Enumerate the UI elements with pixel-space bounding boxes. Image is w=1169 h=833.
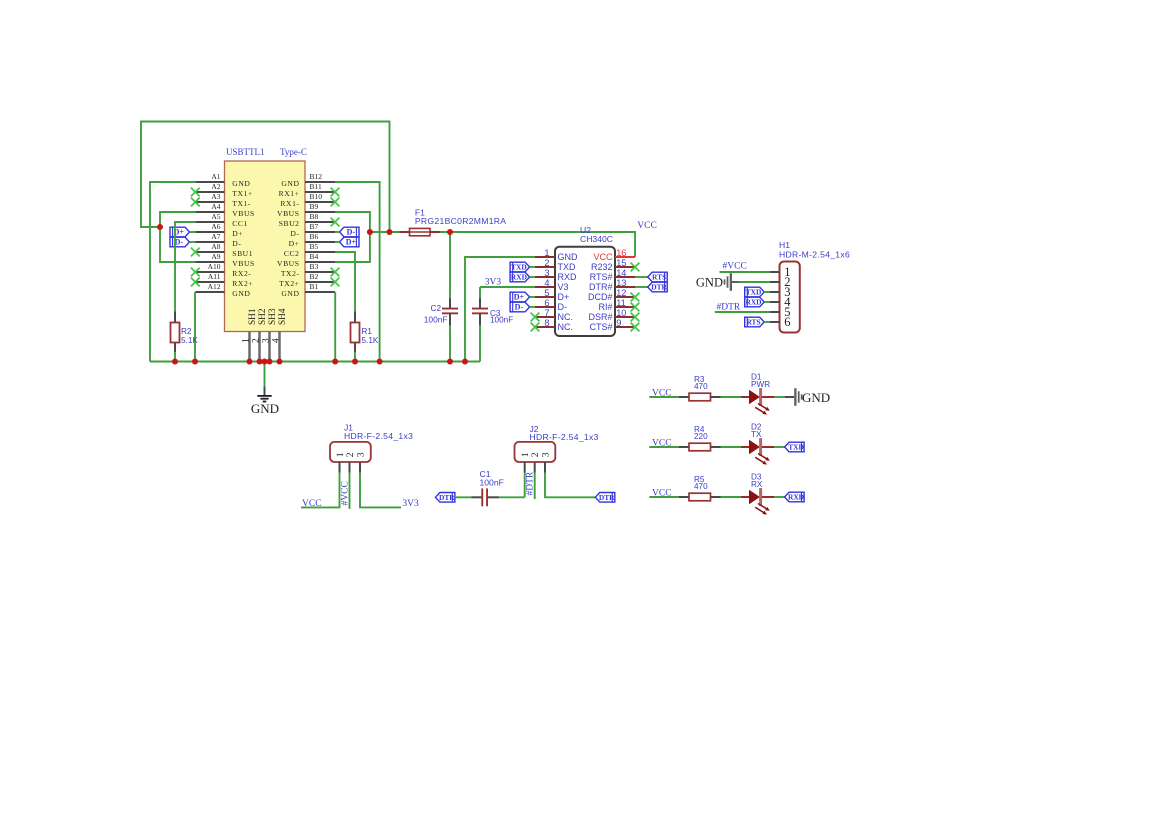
svg-text:VBUS: VBUS <box>232 259 254 268</box>
svg-text:RI#: RI# <box>598 302 612 312</box>
wire 3V3 to C3 <box>479 287 481 299</box>
H1 pin 4 <box>770 295 791 309</box>
connector USBTTL1 Type-C body <box>225 161 306 332</box>
svg-text:14: 14 <box>616 268 626 278</box>
ground <box>251 362 279 417</box>
svg-text:B5: B5 <box>310 242 319 251</box>
H1 pin 2 <box>770 275 790 289</box>
pin SH4 <box>271 308 288 361</box>
net flag D+ (A6) <box>170 227 190 237</box>
svg-text:GND: GND <box>281 289 299 298</box>
U2 pin 4 V3 <box>535 278 569 292</box>
net flag DTR (J2 right) <box>595 493 615 503</box>
svg-text:SBU1: SBU1 <box>232 249 253 258</box>
svg-text:A7: A7 <box>211 232 220 241</box>
pin A4 VBUS <box>195 202 254 218</box>
no-connect X B11 <box>331 188 340 197</box>
resistor R1 5.1K <box>351 312 379 353</box>
svg-text:RTS: RTS <box>652 273 666 282</box>
svg-text:11: 11 <box>616 298 626 308</box>
U2 pin 2 TXD <box>535 258 576 272</box>
svg-text:RX2+: RX2+ <box>232 279 253 288</box>
svg-text:RX2-: RX2- <box>232 269 251 278</box>
pin B2 TX2+ <box>279 272 335 288</box>
capacitor C2 100nF <box>424 298 458 325</box>
junction <box>447 359 453 365</box>
net flag DTR (U2 pin13) <box>648 282 668 292</box>
wire <box>530 266 535 268</box>
svg-text:5.1K: 5.1K <box>362 336 379 345</box>
wire <box>721 396 742 398</box>
svg-text:220: 220 <box>694 432 708 441</box>
svg-text:TX: TX <box>751 430 762 439</box>
connector H1 HDR-M-2.54_1x6 body <box>780 262 800 333</box>
svg-text:B1: B1 <box>310 282 319 291</box>
svg-text:5.1K: 5.1K <box>181 336 198 345</box>
U2 pin 13 DTR# <box>589 278 635 292</box>
svg-text:2: 2 <box>345 452 356 457</box>
svg-text:A9: A9 <box>211 252 220 261</box>
wire <box>530 276 535 278</box>
net flag RXD (D3) <box>785 492 805 502</box>
net flag TXD (D2) <box>785 442 805 452</box>
pin SH2 <box>251 308 268 361</box>
svg-text:VCC: VCC <box>302 499 322 509</box>
svg-text:R1: R1 <box>362 327 373 336</box>
svg-text:7: 7 <box>544 308 549 318</box>
svg-text:GND: GND <box>558 252 579 262</box>
wire J1 pin1 to VCC <box>301 473 340 508</box>
svg-text:CC1: CC1 <box>232 219 248 228</box>
U2 pin 7 NC. <box>535 308 573 322</box>
svg-text:9: 9 <box>616 318 621 328</box>
svg-text:470: 470 <box>694 382 708 391</box>
junction <box>447 229 453 235</box>
LED D1 PWR <box>741 373 774 415</box>
svg-text:R2: R2 <box>181 327 192 336</box>
wire <box>774 446 784 448</box>
junction <box>247 359 253 365</box>
junction <box>172 359 178 365</box>
svg-text:13: 13 <box>616 278 626 288</box>
pin B6 D+ <box>289 232 335 248</box>
pin A9 VBUS <box>195 252 254 268</box>
svg-text:12: 12 <box>616 288 626 298</box>
wire J1 pin3 to 3V3 <box>360 473 401 508</box>
wire <box>530 296 535 298</box>
no-connect X U2 pin 9 <box>631 323 640 332</box>
svg-text:6: 6 <box>544 298 549 308</box>
svg-text:GND: GND <box>281 179 299 188</box>
no-connect X U2 pin7 <box>531 313 540 322</box>
U2 pin 6 D- <box>535 298 567 312</box>
svg-text:B10: B10 <box>310 192 323 201</box>
J2 pin 1 <box>520 452 531 472</box>
svg-text:2: 2 <box>544 258 549 268</box>
junction <box>192 359 198 365</box>
pin B12 GND <box>281 172 335 188</box>
junction <box>257 359 263 365</box>
pin A11 RX2+ <box>195 272 253 288</box>
net flag RTS (H1 pin6) <box>745 317 765 327</box>
pin A1 GND <box>195 172 250 188</box>
svg-text:D-: D- <box>290 229 299 238</box>
net flag RXD (U2 pin3) <box>510 272 529 282</box>
junction <box>367 229 373 235</box>
U2 pin 3 RXD <box>535 268 577 282</box>
connector J1 HDR-F-2.54_1x3 body <box>330 442 371 462</box>
wire <box>649 446 679 448</box>
pin B8 SBU2 <box>279 212 335 228</box>
pin A8 SBU1 <box>195 242 253 258</box>
wire <box>764 301 770 303</box>
svg-text:3: 3 <box>355 452 366 457</box>
wire <box>635 276 648 278</box>
svg-text:TX1+: TX1+ <box>232 189 252 198</box>
svg-text:B7: B7 <box>310 222 319 231</box>
capacitor C1 100nF <box>471 469 504 506</box>
junction <box>262 359 268 365</box>
svg-text:10: 10 <box>616 308 626 318</box>
svg-text:SH3: SH3 <box>268 308 278 325</box>
wire <box>335 241 340 243</box>
svg-text:RX: RX <box>751 480 763 489</box>
svg-text:3: 3 <box>540 452 551 457</box>
svg-text:GND: GND <box>232 289 250 298</box>
svg-text:CTS#: CTS# <box>589 322 612 332</box>
wire <box>740 281 770 283</box>
pin B11 RX1+ <box>279 182 335 198</box>
J2 pin 2 <box>530 452 541 472</box>
no-connect X B10 <box>331 198 340 207</box>
svg-text:A2: A2 <box>211 182 220 191</box>
svg-text:3V3: 3V3 <box>485 278 502 288</box>
wire VBUS top loop <box>141 122 390 233</box>
svg-text:SH1: SH1 <box>248 308 258 325</box>
pin B3 TX2- <box>281 262 335 278</box>
svg-text:TXD: TXD <box>558 262 577 272</box>
U2 pin 5 D+ <box>535 288 569 302</box>
net flag D+ (U2 pin5) <box>510 292 529 302</box>
fuse F1 PRG21BC0R2MM1RA <box>400 208 507 236</box>
net flag DTR (C1 left) <box>435 493 455 503</box>
svg-text:D-: D- <box>232 239 241 248</box>
U2 pin 14 RTS# <box>590 268 635 282</box>
pin B1 GND <box>281 282 335 298</box>
svg-text:VBUS: VBUS <box>232 209 254 218</box>
svg-text:B8: B8 <box>310 212 319 221</box>
svg-text:DSR#: DSR# <box>588 312 612 322</box>
svg-text:C2: C2 <box>431 304 442 313</box>
wire B12 GND down <box>335 182 380 362</box>
svg-text:VCC: VCC <box>637 221 657 231</box>
svg-text:DTR: DTR <box>439 493 455 502</box>
svg-text:A12: A12 <box>208 282 221 291</box>
net flag RTS (U2 pin14) <box>648 272 668 282</box>
svg-text:100nF: 100nF <box>424 315 448 325</box>
J1 pin 2 <box>345 452 356 472</box>
junction <box>352 359 358 365</box>
wire #VCC to H1 pin1 <box>720 271 771 273</box>
capacitor C3 100nF <box>472 298 513 325</box>
resistor R2 5.1K <box>171 312 199 353</box>
svg-text:15: 15 <box>616 258 626 268</box>
wire R2 to bus <box>174 352 176 362</box>
no-connect X B3 <box>331 268 340 277</box>
wire <box>335 231 340 233</box>
no-connect X A10 <box>191 268 200 277</box>
wire J2 pin2 #DTR stub <box>534 473 536 500</box>
svg-text:100nF: 100nF <box>490 316 513 325</box>
svg-text:3: 3 <box>544 268 549 278</box>
junction <box>277 359 283 365</box>
IC U2 CH340C body <box>555 247 615 336</box>
svg-text:VBUS: VBUS <box>277 209 299 218</box>
wire VCC to C2 <box>449 232 451 299</box>
svg-text:VBUS: VBUS <box>277 259 299 268</box>
pin A5 CC1 <box>195 212 248 228</box>
svg-text:PRG21BC0R2MM1RA: PRG21BC0R2MM1RA <box>415 216 506 226</box>
svg-text:SBU2: SBU2 <box>279 219 300 228</box>
H1 pin 1 <box>770 265 790 279</box>
svg-text:8: 8 <box>544 318 549 328</box>
wire <box>530 306 535 308</box>
wire <box>455 496 471 498</box>
svg-text:B4: B4 <box>310 252 319 261</box>
wire U2 GND pin1 <box>465 257 535 362</box>
ground at H1 pin2 <box>696 273 740 291</box>
pin A10 RX2- <box>195 262 251 278</box>
junction <box>157 224 163 230</box>
svg-text:4: 4 <box>271 338 281 343</box>
svg-text:D-: D- <box>558 302 568 312</box>
svg-text:VCC: VCC <box>593 252 613 262</box>
svg-text:TX1-: TX1- <box>232 199 251 208</box>
svg-text:GND: GND <box>802 390 830 405</box>
svg-text:GND: GND <box>696 276 723 290</box>
svg-text:TX2-: TX2- <box>281 269 300 278</box>
resistor R4 220 <box>679 425 721 451</box>
svg-text:DTR: DTR <box>599 493 615 502</box>
wire 3V3 to U2 V3 <box>480 286 535 288</box>
svg-text:GND: GND <box>251 401 279 416</box>
U2 pin 8 NC. <box>535 318 573 332</box>
J2 pin 3 <box>540 452 551 472</box>
pin A2 TX1+ <box>195 182 252 198</box>
wire <box>774 496 784 498</box>
net flag D- (A7) <box>170 237 190 247</box>
svg-text:D-: D- <box>515 303 524 312</box>
svg-text:R232: R232 <box>591 262 613 272</box>
wire C2 to bus <box>449 325 451 362</box>
junction <box>332 359 338 365</box>
svg-text:PWR: PWR <box>751 380 770 389</box>
svg-text:TXD: TXD <box>788 443 804 452</box>
wire #DTR to H1 pin5 <box>715 311 770 313</box>
svg-text:A6: A6 <box>211 222 220 231</box>
svg-text:HDR-F-2.54_1x3: HDR-F-2.54_1x3 <box>344 431 413 441</box>
wire A1 GND to left rail <box>150 182 195 362</box>
svg-text:B11: B11 <box>310 182 322 191</box>
svg-text:A11: A11 <box>208 272 221 281</box>
svg-text:RXD: RXD <box>558 272 578 282</box>
svg-text:SH4: SH4 <box>278 308 288 325</box>
svg-text:A10: A10 <box>208 262 221 271</box>
J1 pin 3 <box>355 452 366 472</box>
svg-text:RTS: RTS <box>746 318 760 327</box>
wire J2 pin3 down <box>545 473 595 498</box>
U2 pin 16 VCC <box>593 248 635 262</box>
U2 pin 10 DSR# <box>588 308 635 322</box>
wire C3 to bus <box>479 325 481 362</box>
ground at D1 <box>785 388 830 406</box>
svg-text:B6: B6 <box>310 232 319 241</box>
junction <box>267 359 273 365</box>
wire <box>649 496 679 498</box>
svg-text:#DTR: #DTR <box>717 303 741 313</box>
svg-text:3V3: 3V3 <box>402 499 419 509</box>
wire B5 CC2 to R1 <box>335 252 355 312</box>
svg-text:B2: B2 <box>310 272 319 281</box>
pin B7 D- <box>290 222 335 238</box>
wire GND bottom bus <box>150 361 480 363</box>
svg-text:3: 3 <box>261 338 271 343</box>
svg-text:16: 16 <box>616 248 626 258</box>
net flag TXD (U2 pin2) <box>510 262 529 272</box>
H1 pin 6 <box>770 315 790 329</box>
svg-text:100nF: 100nF <box>480 478 504 488</box>
no-connect X A11 <box>191 278 200 287</box>
junction <box>377 359 383 365</box>
H1 pin 3 <box>770 285 790 299</box>
svg-text:RTS#: RTS# <box>590 272 613 282</box>
wire B9 VBUS to B4 <box>335 212 370 262</box>
no-connect X A2 <box>191 188 200 197</box>
svg-text:RXD: RXD <box>788 493 804 502</box>
no-connect X U2 pin 11 <box>631 303 640 312</box>
resistor R3 470 <box>679 375 721 401</box>
wire <box>721 496 742 498</box>
net flag TXD (H1 pin3) <box>745 287 765 297</box>
svg-text:CC2: CC2 <box>284 249 300 258</box>
svg-text:4: 4 <box>544 278 549 288</box>
junction <box>387 229 393 235</box>
wire CC1 to R2 <box>175 222 195 312</box>
svg-text:#DTR: #DTR <box>526 471 536 495</box>
svg-text:H1: H1 <box>779 240 790 250</box>
resistor R5 470 <box>679 475 721 501</box>
no-connect X U2 pin 15 <box>631 263 640 272</box>
wire <box>721 446 742 448</box>
net flag D+ (B6) <box>340 237 360 247</box>
svg-text:RX1+: RX1+ <box>279 189 300 198</box>
svg-text:#VCC: #VCC <box>341 481 351 505</box>
wire J1 pin2 #VCC stub <box>349 473 351 509</box>
svg-text:D+: D+ <box>346 238 357 247</box>
H1 pin 5 <box>770 305 790 319</box>
svg-text:USBTTL1: USBTTL1 <box>226 147 265 157</box>
svg-text:2: 2 <box>251 338 261 343</box>
svg-text:B3: B3 <box>310 262 319 271</box>
svg-text:HDR-F-2.54_1x3: HDR-F-2.54_1x3 <box>530 432 599 442</box>
svg-text:RXD: RXD <box>745 298 761 307</box>
svg-text:1: 1 <box>241 338 251 343</box>
svg-text:A3: A3 <box>211 192 220 201</box>
pin B9 VBUS <box>277 202 335 218</box>
no-connect X U2 pin 10 <box>631 313 640 322</box>
U2 pin 1 GND <box>535 248 578 262</box>
svg-text:DCD#: DCD# <box>588 292 613 302</box>
svg-text:DTR#: DTR# <box>589 282 613 292</box>
pin B5 CC2 <box>284 242 335 258</box>
svg-text:Type-C: Type-C <box>280 147 307 157</box>
svg-text:SH2: SH2 <box>258 308 268 325</box>
svg-text:B9: B9 <box>310 202 319 211</box>
svg-text:D+: D+ <box>289 239 300 248</box>
LED D3 RX <box>741 473 774 515</box>
wire F1 to VCC node <box>440 232 635 257</box>
svg-text:HDR-M-2.54_1x6: HDR-M-2.54_1x6 <box>779 250 850 260</box>
svg-text:B12: B12 <box>310 172 323 181</box>
wire R1 to bus <box>354 352 356 362</box>
no-connect X B2 <box>331 278 340 287</box>
wire A12 GND down <box>194 292 196 362</box>
no-connect X U2 pin8 <box>531 323 540 332</box>
svg-text:TXD: TXD <box>511 263 527 272</box>
svg-text:RXD: RXD <box>511 273 527 282</box>
wire <box>764 291 770 293</box>
svg-text:A5: A5 <box>211 212 220 221</box>
svg-text:NC.: NC. <box>558 312 574 322</box>
no-connect X B8 <box>331 218 340 227</box>
no-connect X A8 <box>191 248 200 257</box>
svg-text:D-: D- <box>347 228 356 237</box>
svg-text:A1: A1 <box>211 172 220 181</box>
pin B10 RX1- <box>280 192 335 208</box>
svg-text:1: 1 <box>544 248 549 258</box>
pin A7 D- <box>195 232 241 248</box>
wire A4 VBUS <box>160 212 195 262</box>
wire B1 GND down <box>334 292 336 362</box>
pin A6 D+ <box>195 222 243 238</box>
U2 pin 15 R232 <box>591 258 635 272</box>
svg-text:TXD: TXD <box>746 288 762 297</box>
wire <box>649 396 679 398</box>
U2 pin 11 RI# <box>598 298 635 312</box>
svg-text:GND: GND <box>232 179 250 188</box>
svg-text:A4: A4 <box>211 202 220 211</box>
wire VBUS to F1 <box>370 231 400 233</box>
svg-text:D+: D+ <box>558 292 570 302</box>
wire <box>190 241 196 243</box>
no-connect X A3 <box>191 198 200 207</box>
junction <box>462 359 468 365</box>
svg-text:NC.: NC. <box>558 322 574 332</box>
svg-text:V3: V3 <box>558 282 569 292</box>
wire <box>190 231 196 233</box>
svg-text:D+: D+ <box>514 293 525 302</box>
svg-text:CH340C: CH340C <box>580 234 613 244</box>
svg-text:6: 6 <box>784 315 790 329</box>
pin A12 GND <box>195 282 250 298</box>
svg-text:RX1-: RX1- <box>280 199 299 208</box>
pin SH3 <box>261 308 278 361</box>
wire <box>774 396 785 398</box>
svg-text:470: 470 <box>694 482 708 491</box>
net flag D- (B7) <box>340 227 360 237</box>
svg-text:TX2+: TX2+ <box>279 279 299 288</box>
net flag RXD (H1 pin4) <box>745 297 765 307</box>
